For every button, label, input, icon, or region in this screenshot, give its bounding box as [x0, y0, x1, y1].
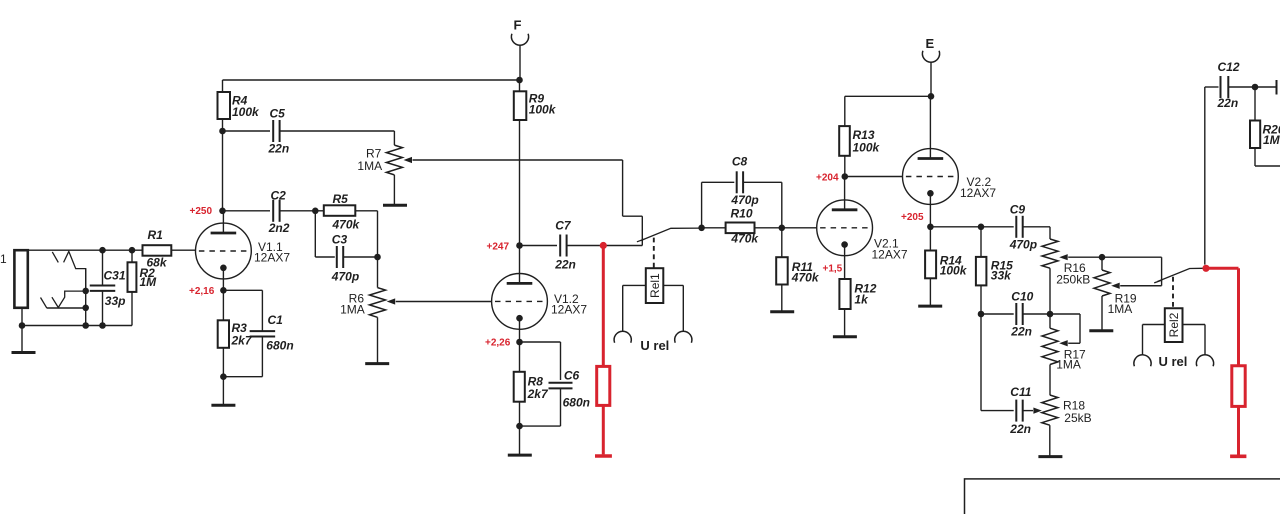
svg-text:1MA: 1MA: [357, 159, 382, 173]
svg-text:2n2: 2n2: [268, 221, 290, 235]
svg-text:E: E: [926, 36, 935, 51]
svg-text:U rel: U rel: [1159, 354, 1188, 369]
svg-text:C8: C8: [732, 155, 748, 169]
svg-text:25kB: 25kB: [1064, 411, 1091, 425]
svg-text:22n: 22n: [554, 258, 576, 272]
svg-text:+250: +250: [190, 206, 213, 217]
svg-text:C5: C5: [270, 107, 286, 121]
svg-text:C9: C9: [1010, 203, 1026, 217]
svg-text:R10: R10: [731, 207, 753, 221]
svg-text:33k: 33k: [991, 269, 1012, 283]
svg-text:470k: 470k: [730, 232, 759, 246]
svg-text:1MA: 1MA: [340, 303, 365, 317]
svg-text:680n: 680n: [563, 396, 590, 410]
svg-text:R5: R5: [333, 192, 349, 206]
svg-text:C2: C2: [271, 189, 287, 203]
svg-text:12AX7: 12AX7: [872, 248, 908, 262]
svg-text:22n: 22n: [268, 142, 290, 156]
svg-text:250kB: 250kB: [1056, 273, 1090, 287]
svg-text:100k: 100k: [940, 264, 968, 278]
svg-text:+247: +247: [487, 242, 510, 253]
svg-text:1M: 1M: [1263, 133, 1280, 147]
svg-text:470p: 470p: [1009, 238, 1037, 252]
svg-text:470k: 470k: [791, 271, 820, 285]
svg-text:100k: 100k: [232, 105, 260, 119]
svg-text:1MA: 1MA: [1056, 358, 1081, 372]
svg-text:C31: C31: [104, 269, 126, 283]
svg-text:F: F: [514, 18, 522, 33]
svg-text:1M: 1M: [140, 275, 158, 289]
svg-text:12AX7: 12AX7: [960, 186, 996, 200]
svg-text:100k: 100k: [529, 103, 557, 117]
svg-text:+204: +204: [816, 173, 839, 184]
svg-text:C12: C12: [1218, 60, 1240, 74]
svg-text:33p: 33p: [105, 294, 126, 308]
svg-text:U rel: U rel: [640, 338, 669, 353]
svg-text:22n: 22n: [1009, 422, 1031, 436]
svg-text:Rel2: Rel2: [1167, 312, 1181, 337]
svg-text:+205: +205: [901, 212, 924, 223]
svg-text:470p: 470p: [730, 193, 758, 207]
svg-text:C11: C11: [1010, 385, 1031, 399]
svg-text:12AX7: 12AX7: [551, 303, 587, 317]
svg-text:1: 1: [0, 252, 7, 266]
svg-text:2k7: 2k7: [527, 387, 549, 401]
svg-text:1MA: 1MA: [1108, 302, 1133, 316]
svg-text:12AX7: 12AX7: [254, 251, 290, 265]
svg-text:1k: 1k: [854, 293, 869, 307]
svg-text:+2,16: +2,16: [189, 286, 215, 297]
svg-text:470k: 470k: [332, 218, 361, 232]
svg-text:470p: 470p: [331, 270, 359, 284]
svg-text:C6: C6: [564, 369, 580, 383]
svg-text:R1: R1: [148, 228, 164, 242]
svg-text:22n: 22n: [1010, 325, 1032, 339]
svg-text:680n: 680n: [266, 339, 293, 353]
svg-text:Rel1: Rel1: [648, 273, 662, 298]
svg-text:C10: C10: [1011, 290, 1033, 304]
svg-text:22n: 22n: [1217, 96, 1239, 110]
svg-text:+1,5: +1,5: [823, 264, 843, 275]
svg-text:C3: C3: [332, 233, 348, 247]
svg-text:2k7: 2k7: [231, 334, 253, 348]
svg-text:68k: 68k: [147, 256, 168, 270]
svg-text:C7: C7: [555, 219, 572, 233]
svg-text:+2,26: +2,26: [485, 338, 511, 349]
svg-text:100k: 100k: [853, 141, 881, 155]
svg-text:C1: C1: [268, 313, 284, 327]
